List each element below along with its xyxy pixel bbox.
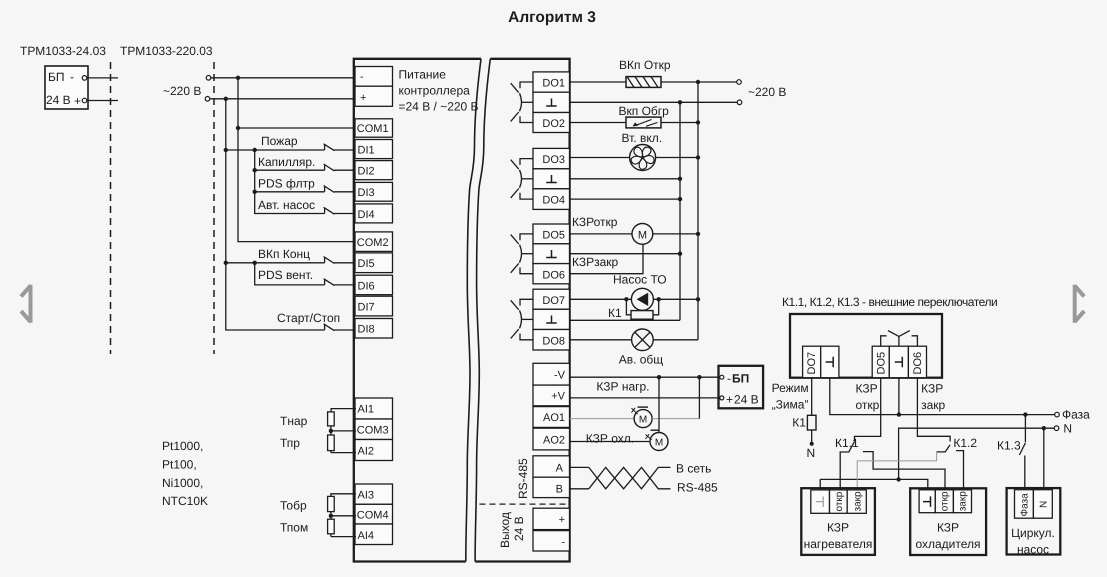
terminal N pump (1033, 490, 1052, 519)
relay contact DO3/DO4 (511, 159, 533, 200)
switch DI5 ВКп Конц (324, 257, 356, 264)
svg-text:DO5: DO5 (876, 352, 888, 375)
wire DO2 to damper (570, 122, 626, 124)
terminal circle 220V right bottom (737, 100, 742, 105)
wire COM4 to sensors (331, 515, 356, 517)
svg-text:Капилляр.: Капилляр. (258, 155, 315, 169)
svg-text:насос: насос (1017, 543, 1049, 557)
svg-text:DO5: DO5 (542, 230, 565, 242)
terminal COM2 (355, 232, 393, 252)
terminal -V (533, 363, 570, 385)
svg-text:DO2: DO2 (542, 118, 565, 130)
svg-text:Вт. вкл.: Вт. вкл. (622, 131, 663, 145)
junction DI1 feed (224, 148, 228, 152)
wire lamp to phase bus (653, 339, 698, 341)
wire Пожар to DI1 switch (226, 149, 325, 151)
wire gnd1 to neutral bus (570, 101, 737, 103)
terminal DO3 (533, 148, 570, 168)
terminal DI1 (355, 140, 393, 159)
wire to COM1 (238, 127, 356, 129)
svg-text:DI8: DI8 (358, 324, 375, 336)
terminal gnd heater (811, 490, 830, 513)
terminal DI7 (355, 296, 393, 316)
label Режим Зима (772, 381, 809, 412)
svg-text:+: + (360, 92, 366, 104)
wire COM3 to sensors (331, 430, 356, 432)
terminal DI4 (355, 204, 393, 223)
svg-text:DO8: DO8 (542, 336, 565, 348)
heater ВКп Откр (hatched box) (626, 77, 661, 88)
svg-text:+: + (74, 94, 81, 108)
svg-text:М: М (638, 229, 647, 241)
wire DO4 to neutral bus (570, 198, 680, 200)
svg-text:закр: закр (921, 398, 945, 412)
terminal COM3 (355, 419, 393, 440)
terminal circle 220V right top (737, 80, 742, 85)
svg-text:Тпр: Тпр (280, 436, 300, 450)
svg-text:К1.2: К1.2 (953, 436, 977, 450)
svg-text:-V: -V (554, 370, 566, 382)
svg-text:+V: +V (551, 391, 565, 403)
switch К1.3 blade (1019, 443, 1025, 455)
wire B into twisted pair (570, 488, 589, 490)
svg-text:AI3: AI3 (358, 490, 375, 502)
terminal закр cooler (953, 490, 971, 513)
junction pump right (657, 297, 661, 301)
svg-text:PDS вент.: PDS вент. (258, 268, 313, 282)
terminal откр cooler (935, 490, 953, 513)
svg-text:Pt100,: Pt100, (162, 458, 197, 472)
svg-text:RS-485: RS-485 (677, 481, 718, 495)
terminal gnd ext1 (821, 346, 839, 378)
wire DO5 to motor (570, 233, 632, 235)
svg-text:DI2: DI2 (358, 166, 375, 178)
label КЗР откр (856, 382, 880, 413)
svg-text:COM4: COM4 (357, 510, 389, 522)
svg-text:КЗРоткр: КЗРоткр (572, 215, 618, 229)
terminal DO5 (533, 224, 570, 244)
svg-text:ВКп Конц: ВКп Конц (258, 247, 310, 261)
svg-text:закр: закр (958, 491, 969, 512)
svg-text:N: N (807, 446, 816, 460)
junction phase bus DO2 (696, 120, 700, 124)
svg-text:К1.3: К1.3 (997, 439, 1021, 453)
wire DO6 to motor bottom (570, 244, 643, 273)
svg-text:Пожар: Пожар (261, 134, 298, 148)
box КЗР охладителя (910, 488, 986, 555)
junction DI3 feed (253, 190, 257, 194)
controller outline left part (354, 59, 481, 562)
junction -V drop2 (697, 375, 701, 379)
wire DO6 ext to К1.2 (917, 378, 950, 442)
svg-text:24 В: 24 В (46, 93, 71, 107)
junction COM3 sensors (329, 429, 333, 433)
svg-text:БП: БП (48, 70, 65, 84)
junction phase gnd ext2 (897, 412, 901, 416)
terminal DI5 (355, 253, 393, 273)
svg-text:М: М (655, 437, 663, 448)
svg-text:=24 В / ~220 В: =24 В / ~220 В (399, 100, 479, 114)
junction bus DI2-DI4 top (253, 148, 257, 152)
sensor Тобр (RTD) (328, 494, 356, 516)
junction -V drop1 (657, 375, 661, 379)
junction phase bus DO7 (696, 297, 700, 301)
svg-text:DI5: DI5 (358, 258, 375, 270)
wire plus to controller (210, 98, 356, 100)
wire DO8 to lamp (570, 339, 632, 341)
label Питание контроллера (399, 68, 479, 114)
svg-text:Ав. общ: Ав. общ (619, 353, 664, 367)
wire PDS вент to DI6 switch (255, 263, 325, 285)
svg-text:24 В: 24 В (512, 516, 526, 541)
terminal gnd ext2 (889, 346, 908, 378)
junction phase bus DO1 (696, 80, 700, 84)
svg-text:+: + (726, 393, 733, 407)
twisted pair RS-485 line1 (589, 467, 671, 488)
terminal DO1 (533, 72, 570, 92)
selector switch common blades (888, 331, 910, 347)
svg-text:„Зима”: „Зима” (772, 398, 809, 412)
terminal DO4 (533, 189, 570, 210)
junction pump left (624, 297, 628, 301)
junction N pump (1042, 426, 1046, 430)
junction COM4 sensors (329, 514, 333, 518)
junction on plus wire (224, 97, 228, 101)
wire -V drop to КЗР охл motor (658, 377, 660, 432)
terminal circle БП plus (82, 98, 87, 103)
switch DI1 Пожар (324, 144, 356, 151)
terminal AI3 (355, 484, 393, 504)
svg-text:В сеть: В сеть (676, 462, 711, 476)
wire БП plus stub (87, 100, 118, 102)
wire gnd4 to neutral bus (570, 319, 680, 321)
box КЗР нагревателя (801, 488, 875, 555)
terminal DO7 (533, 289, 570, 309)
power supply БП (24V) (45, 66, 88, 109)
wire gnd ext1 to phase (830, 378, 1056, 415)
svg-text:КЗР: КЗР (827, 521, 849, 535)
svg-text:COM1: COM1 (357, 123, 389, 135)
terminal +V (533, 385, 570, 406)
sensor Тпом (RTD) (328, 516, 356, 537)
svg-text:RS-485: RS-485 (516, 458, 530, 499)
junction N commons (896, 477, 900, 481)
svg-text:AO1: AO1 (543, 412, 565, 424)
svg-text:нагревателя: нагревателя (804, 537, 873, 551)
controller outline right part (475, 59, 569, 562)
svg-text:DO3: DO3 (542, 154, 565, 166)
svg-text:Ni1000,: Ni1000, (162, 476, 203, 490)
label sensor types Pt1000 (162, 439, 208, 508)
svg-text:Тнар: Тнар (280, 414, 308, 428)
wire ВКп Конц to DI5 switch (226, 262, 325, 264)
lamp Ав. общ (632, 329, 654, 351)
terminal gnd1 (533, 92, 570, 112)
terminal gnd cooler (919, 490, 935, 513)
junction phase bus DO5 (696, 232, 700, 236)
svg-text:-: - (360, 71, 364, 83)
switch DI6 PDS вент (324, 279, 356, 286)
terminal minus (power) (355, 67, 393, 87)
dashed separator Выход 24В (480, 503, 570, 505)
sensor Тпр (RTD) (328, 431, 356, 453)
wire +V to БП (570, 397, 720, 399)
svg-text:DI1: DI1 (358, 145, 375, 157)
wire N main (899, 428, 1055, 479)
switch DI3 PDS флтр (324, 186, 356, 193)
terminal AI4 (355, 524, 393, 545)
svg-text:КЗР охл.: КЗР охл. (586, 432, 634, 446)
tear wavy line right (475, 59, 490, 562)
svg-text:К1.1: К1.1 (835, 436, 859, 450)
terminal AI2 (355, 440, 393, 461)
junction neutral bus DO4 (678, 197, 682, 201)
svg-text:контроллера: контроллера (399, 84, 471, 98)
terminal DI6 (355, 275, 393, 295)
svg-text:COM2: COM2 (357, 237, 389, 249)
terminal circle БП minus (82, 76, 87, 81)
wire gnd ext2 to phase (898, 378, 900, 415)
svg-text:КЗР нагр.: КЗР нагр. (596, 380, 649, 394)
terminal circle Фаза (1055, 412, 1060, 417)
terminal DO6 (533, 264, 570, 284)
svg-text:откр: откр (856, 398, 880, 412)
thin wire К1.2 to heater закр (857, 452, 936, 490)
svg-text:PDS флтр: PDS флтр (258, 177, 315, 191)
terminal COM1 (355, 119, 393, 137)
svg-text:Фаза: Фаза (1020, 493, 1031, 517)
svg-text:NTC10K: NTC10K (162, 494, 208, 508)
wire DO7 ext down (811, 378, 813, 416)
svg-text:DI3: DI3 (358, 187, 375, 199)
svg-text:Вкп Обгр: Вкп Обгр (619, 104, 670, 118)
external switch box (790, 314, 942, 378)
fan Вт. вкл. (630, 145, 656, 171)
wire motor to phase bus (653, 233, 698, 235)
nav arrow right (1075, 285, 1085, 323)
svg-text:N: N (1039, 501, 1050, 508)
svg-text:COM3: COM3 (357, 425, 389, 437)
terminal circle 220V N (205, 97, 210, 102)
switch К1.2 blade (937, 445, 950, 452)
junction DI2 feed (253, 168, 257, 172)
svg-text:AI2: AI2 (358, 446, 375, 458)
svg-text:Выход: Выход (498, 512, 512, 548)
svg-text:Алгоритм 3: Алгоритм 3 (508, 9, 596, 26)
junction ВКп Конц feed (224, 261, 228, 265)
junction neutral bus top (678, 100, 682, 104)
terminal DO6 ext (908, 346, 926, 378)
svg-text:Режим: Режим (772, 381, 809, 395)
svg-text:-: - (727, 372, 731, 386)
twisted pair RS-485 line2 (589, 467, 671, 488)
svg-text:Циркул.: Циркул. (1011, 526, 1055, 540)
svg-text:AI4: AI4 (358, 530, 375, 542)
switch DI8 Старт/Стоп (324, 324, 356, 331)
motor M КЗР нагр (634, 410, 652, 428)
terminal DI3 (355, 182, 393, 201)
svg-text:охладителя: охладителя (915, 537, 980, 551)
svg-text:КЗР: КЗР (856, 382, 878, 396)
wire motor КЗР нагр to -V (652, 418, 699, 420)
label КЗР закр (921, 382, 945, 413)
arrow Y into КЗР нагр motor (632, 408, 638, 415)
svg-text:24 В: 24 В (734, 393, 759, 407)
svg-text:КЗР: КЗР (921, 382, 943, 396)
terminal COM4 (355, 504, 393, 524)
terminal gnd3 (533, 244, 570, 264)
junction neutral bus gnd3 (678, 252, 682, 256)
switch DI2 Капилляр (324, 164, 356, 171)
relay contact DO7/DO8 (511, 299, 533, 340)
wire N to pump N (1043, 428, 1045, 490)
dashed divider line 2 (213, 62, 215, 354)
svg-text:Питание: Питание (399, 68, 447, 82)
wire gnd3 to neutral bus (570, 253, 680, 255)
svg-text:К1.1, К1.2, К1.3 - внешние пер: К1.1, К1.2, К1.3 - внешние переключатели (782, 295, 997, 309)
svg-text:DI7: DI7 (358, 302, 375, 314)
terminal DO8 (533, 330, 570, 351)
wire heater to phase bus (661, 81, 737, 83)
terminal AO2 (533, 428, 570, 450)
relay coil К1 (winter mode) (807, 415, 816, 430)
bus DI common (from plus) (226, 99, 325, 330)
svg-text:КЗРзакр: КЗРзакр (572, 255, 619, 269)
svg-text:К1: К1 (792, 416, 806, 430)
svg-text:DO6: DO6 (912, 352, 924, 375)
svg-text:В: В (556, 484, 563, 496)
junction neutral bus gnd2 (678, 177, 682, 181)
motor M КЗР откр/закр (632, 224, 653, 245)
power supply БП right box (719, 366, 764, 409)
wire К1.3 to pump Фаза (1024, 456, 1026, 490)
wire К1 coil to N (811, 430, 813, 444)
junction phase К1.3 (1023, 412, 1027, 416)
svg-text:Насос ТО: Насос ТО (613, 273, 667, 287)
bus DI2-DI4 (255, 150, 325, 214)
svg-text:Тпом: Тпом (280, 521, 308, 535)
svg-text:Тобр: Тобр (280, 499, 307, 513)
svg-text:DI4: DI4 (358, 209, 375, 221)
svg-text:М: М (639, 414, 647, 425)
wire gnd2 to neutral bus (570, 178, 680, 180)
svg-text:закр: закр (853, 491, 864, 512)
relay contact DO5/DO6 (511, 234, 533, 274)
svg-text:~220 В: ~220 В (163, 84, 201, 98)
svg-text:DI6: DI6 (358, 281, 375, 293)
relay coil К1 (626, 299, 658, 319)
terminal DI8 (355, 319, 393, 339)
svg-text:AI1: AI1 (358, 404, 375, 416)
minus sign above КЗР нагр motor (638, 406, 649, 408)
terminal DO7 ext (803, 346, 821, 378)
terminal AI1 (355, 398, 393, 419)
svg-text:Авт. насос: Авт. насос (258, 198, 315, 212)
bus COM (from minus) (238, 78, 356, 242)
svg-text:А: А (556, 463, 564, 475)
switch К1.2 alt contact to cooler закр (956, 451, 964, 490)
svg-text:КЗР: КЗР (937, 521, 959, 535)
wire minus to controller (211, 77, 356, 79)
svg-text:DO7: DO7 (542, 295, 565, 307)
junction COM1 (236, 126, 240, 130)
sensor Тнар (RTD) (328, 409, 356, 431)
svg-text:Pt1000,: Pt1000, (162, 439, 203, 453)
switch К1.1 blade (840, 442, 854, 490)
svg-text:DO4: DO4 (542, 195, 565, 207)
terminal откр heater (830, 490, 848, 513)
svg-text:Старт/Стоп: Старт/Стоп (277, 311, 340, 325)
junction phase bus DO3 (696, 155, 700, 159)
wire AO1 to motor КЗР нагр (570, 418, 635, 420)
wire commons to N (gnd heater + gnd cooler) (820, 479, 928, 490)
wire Фаза to К1.3 (1024, 415, 1026, 443)
tear wavy line left (466, 59, 481, 562)
arrow Y into КЗР охл motor (646, 434, 652, 440)
wire damper to phase bus (661, 122, 698, 124)
wire DO3 to fan (570, 157, 630, 159)
switch К1.1 alt contact to cooler откр (863, 452, 945, 490)
minus sign above КЗР охл motor (651, 429, 660, 431)
svg-text:-: - (561, 537, 565, 549)
terminal закр heater (847, 490, 866, 513)
junction PDS вент branch (253, 261, 257, 265)
svg-text:-: - (70, 70, 74, 84)
svg-text:ТРМ1033-220.03: ТРМ1033-220.03 (120, 44, 213, 58)
terminal gnd2 (533, 169, 570, 189)
terminal B (533, 477, 570, 497)
svg-text:откр: откр (834, 491, 845, 511)
terminal DO2 (533, 113, 570, 133)
motor M КЗР охл (650, 433, 668, 451)
relay contact DO1/DO2 (511, 82, 533, 123)
terminal circle 220V L (206, 76, 211, 81)
svg-text:БП: БП (732, 372, 749, 386)
selector switch stubs DO5 (881, 336, 887, 346)
wire БП minus stub (87, 77, 118, 79)
terminal plus (power) (355, 86, 393, 106)
wire DO7 to pump (570, 298, 632, 300)
wire DO5 ext to К1.1 (855, 378, 881, 442)
svg-text:DO7: DO7 (806, 352, 818, 375)
pump Насос ТО (631, 288, 653, 310)
nav arrow left (21, 285, 31, 323)
wire DO1 to heater (570, 81, 626, 83)
terminal AO1 (533, 407, 570, 428)
wire PDS флтр to DI3 switch (255, 191, 325, 193)
svg-text:DO1: DO1 (542, 78, 565, 90)
neutral bus vertical (679, 102, 681, 320)
svg-text:ВКп Откр: ВКп Откр (619, 58, 671, 72)
svg-text:+: + (559, 514, 565, 526)
svg-text:AO2: AO2 (543, 435, 565, 447)
wire pump to phase bus (653, 298, 698, 300)
wire -V to БП (570, 376, 720, 378)
svg-text:ТРМ1033-24.03: ТРМ1033-24.03 (20, 44, 106, 58)
terminal gnd4 (533, 309, 570, 329)
svg-text:N: N (1063, 422, 1072, 436)
svg-text:откр: откр (940, 491, 951, 511)
box Циркул насос (1007, 488, 1061, 556)
svg-text:DO6: DO6 (542, 270, 565, 282)
svg-text:Фаза: Фаза (1062, 408, 1090, 422)
terminal DO5 ext (872, 346, 889, 378)
terminal circle N (1054, 426, 1059, 431)
terminal out plus (533, 508, 570, 529)
switch DI4 Авт насос (324, 207, 356, 214)
wire Капилляр to DI2 switch (255, 169, 325, 171)
junction on minus wire (236, 76, 240, 80)
